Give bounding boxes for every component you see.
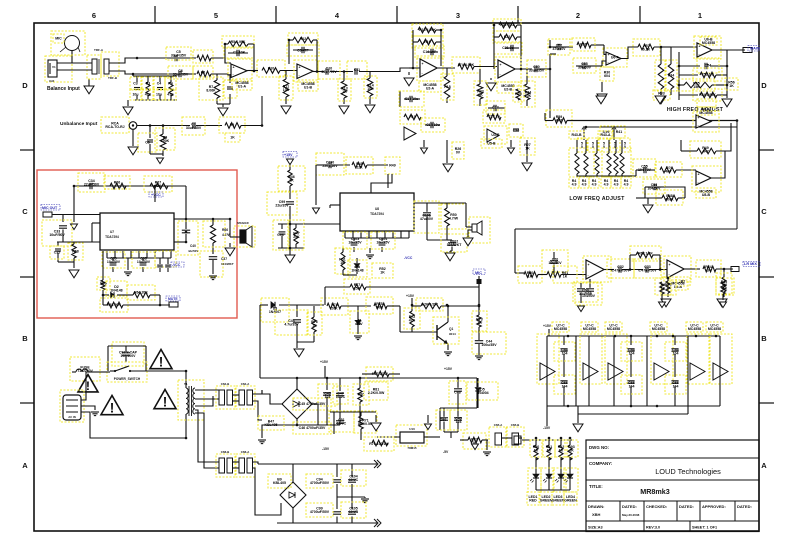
svg-text:DATED:: DATED: <box>679 504 694 509</box>
svg-text:LOW FREQ ADJUST: LOW FREQ ADJUST <box>569 196 625 202</box>
svg-text:R18: R18 <box>444 85 450 89</box>
svg-text:10K: 10K <box>283 88 290 92</box>
svg-text:R19: R19 <box>409 115 415 119</box>
svg-text:-5V: -5V <box>443 450 449 454</box>
svg-text:May.20.2008: May.20.2008 <box>622 513 640 517</box>
svg-text:1K: 1K <box>547 448 552 452</box>
svg-text:SPEAKER: SPEAKER <box>237 222 249 225</box>
svg-text:+: + <box>698 116 700 120</box>
svg-text:R34: R34 <box>668 74 674 78</box>
svg-text:MC4558: MC4558 <box>607 327 620 331</box>
svg-text:574-4.99K: 574-4.99K <box>458 63 475 67</box>
svg-text:C22: C22 <box>492 106 498 110</box>
svg-text:C52 1/6: C52 1/6 <box>701 73 713 77</box>
svg-text:Q1: Q1 <box>449 327 453 331</box>
svg-text:5: 5 <box>214 11 218 20</box>
svg-text:+: + <box>588 263 590 267</box>
svg-text:4700uF/50V: 4700uF/50V <box>310 510 330 514</box>
svg-text:R66: R66 <box>114 181 120 185</box>
svg-text:4700uF/50V: 4700uF/50V <box>310 481 330 485</box>
svg-text:104: 104 <box>562 384 568 388</box>
svg-text:POWER_SWITCH: POWER_SWITCH <box>114 377 141 381</box>
svg-text:470/50V: 470/50V <box>552 47 566 51</box>
svg-text:6.2K 1/2W: 6.2K 1/2W <box>421 303 438 307</box>
svg-text:2.2K/0.5W: 2.2K/0.5W <box>368 391 385 395</box>
svg-text:T1: T1 <box>184 382 188 386</box>
svg-text:10u/50V: 10u/50V <box>548 261 562 265</box>
svg-text:C23 1u: C23 1u <box>488 115 499 119</box>
svg-text:47K: 47K <box>145 93 152 97</box>
svg-text:+15V: +15V <box>444 367 453 371</box>
svg-text:4K7: 4K7 <box>702 149 708 153</box>
svg-text:GREEN: GREEN <box>564 498 577 502</box>
svg-text:C48: C48 <box>454 391 460 395</box>
svg-text:MIC OUT: MIC OUT <box>42 206 58 210</box>
svg-text:C40: C40 <box>190 244 196 248</box>
svg-text:D: D <box>22 81 28 90</box>
svg-text:DATED:: DATED: <box>622 504 637 509</box>
svg-text:4/u/50V: 4/u/50V <box>188 249 198 253</box>
svg-text:GREEN: GREEN <box>552 498 565 502</box>
svg-text:22u/35V: 22u/35V <box>275 203 289 207</box>
svg-text:DWG NO:: DWG NO: <box>589 445 610 450</box>
svg-text:+: + <box>422 62 424 66</box>
svg-text:R70 100/1W: R70 100/1W <box>369 442 389 446</box>
svg-text:1K: 1K <box>569 448 574 452</box>
svg-text:D: D <box>761 81 767 90</box>
svg-text:100K: 100K <box>161 139 170 143</box>
svg-text:604: 604 <box>604 74 610 78</box>
svg-text:C11: C11 <box>354 68 360 72</box>
svg-text:!: ! <box>159 354 164 369</box>
svg-text:1K: 1K <box>380 270 385 274</box>
svg-text:10u/50V: 10u/50V <box>107 260 121 264</box>
svg-text:DATED:: DATED: <box>737 504 752 509</box>
svg-text:MC4558: MC4558 <box>699 111 712 115</box>
svg-text:1N4148: 1N4148 <box>110 288 122 292</box>
svg-text:1K: 1K <box>563 274 568 278</box>
svg-text:+: + <box>608 53 610 57</box>
svg-text:1K: 1K <box>666 286 671 290</box>
svg-text:TRF-B: TRF-B <box>108 76 118 80</box>
svg-text:C4: C4 <box>157 82 162 86</box>
svg-text:10u/35V: 10u/35V <box>348 240 362 244</box>
svg-text:R43-B: R43-B <box>571 133 582 137</box>
svg-text:104/WKT: 104/WKT <box>447 243 463 247</box>
svg-text:104: 104 <box>673 384 679 388</box>
svg-text:47K: 47K <box>167 93 174 97</box>
svg-text:20K: 20K <box>331 306 338 310</box>
svg-text:APPROVED:: APPROVED: <box>702 504 726 509</box>
svg-text:15K: 15K <box>693 85 700 89</box>
svg-text:10u/50V: 10u/50V <box>137 260 151 264</box>
svg-text:1K: 1K <box>559 448 564 452</box>
svg-text:C50: C50 <box>440 418 446 422</box>
svg-text:6: 6 <box>92 11 96 20</box>
svg-text:104: 104 <box>629 384 635 388</box>
svg-text:R4: R4 <box>168 82 173 86</box>
svg-text:A: A <box>22 461 28 470</box>
svg-text:220u/16V: 220u/16V <box>322 164 338 168</box>
svg-text:XBH: XBH <box>592 512 601 517</box>
svg-text:KBL405: KBL405 <box>264 423 277 427</box>
svg-text:RCA-TO-RJ: RCA-TO-RJ <box>105 125 124 129</box>
svg-text:15K: 15K <box>354 286 361 290</box>
svg-text:U2-A: U2-A <box>426 86 435 90</box>
svg-text:R25: R25 <box>515 92 521 96</box>
svg-text:U5-B: U5-B <box>487 142 496 146</box>
svg-text:1N4004: 1N4004 <box>476 391 488 395</box>
svg-text:U8-B: U8-B <box>702 193 711 197</box>
svg-text:C9 47P: C9 47P <box>297 49 309 53</box>
svg-text:3: 3 <box>456 11 460 20</box>
svg-text:C35: C35 <box>54 251 60 255</box>
svg-text:9014: 9014 <box>449 332 456 336</box>
svg-text:-15V: -15V <box>322 447 330 451</box>
svg-text:0.47uF/50V: 0.47uF/50V <box>638 268 657 272</box>
svg-text:CHECKED:: CHECKED: <box>646 504 667 509</box>
svg-text:R58: R58 <box>580 43 586 47</box>
svg-text:+: + <box>299 66 301 70</box>
svg-text:B: B <box>761 334 767 343</box>
svg-text:100u/35V: 100u/35V <box>481 343 497 347</box>
svg-text:MC4558: MC4558 <box>702 41 715 45</box>
svg-text:104/50V: 104/50V <box>638 168 652 172</box>
svg-text:R3: R3 <box>146 82 151 86</box>
svg-text:U6-A: U6-A <box>611 56 620 60</box>
svg-text:R6: R6 <box>201 71 206 75</box>
svg-text:1K: 1K <box>534 448 539 452</box>
svg-text:R10: R10 <box>268 67 274 71</box>
svg-text:MC4558: MC4558 <box>583 327 596 331</box>
svg-text:C8: C8 <box>145 141 150 145</box>
svg-text:R66: R66 <box>222 228 228 232</box>
svg-text:Unbalance Input: Unbalance Input <box>60 121 98 127</box>
svg-text:104: 104 <box>673 351 679 355</box>
svg-text:R54 4.99K: R54 4.99K <box>699 93 716 97</box>
svg-text:C14 10P: C14 10P <box>423 50 437 54</box>
svg-text:104/C: 104/C <box>336 395 346 399</box>
svg-text:Balance Input: Balance Input <box>47 86 80 92</box>
svg-text:+15V: +15V <box>320 360 329 364</box>
svg-text:REV:3.0: REV:3.0 <box>646 526 660 530</box>
svg-text:U3-B: U3-B <box>491 133 500 137</box>
svg-text:C54: C54 <box>705 64 711 68</box>
svg-text:CN5-A: CN5-A <box>494 423 503 427</box>
svg-text:MUTE: MUTE <box>168 297 178 301</box>
svg-text:+: + <box>669 263 671 267</box>
svg-text:-VCC: -VCC <box>172 263 181 267</box>
svg-text:10u: 10u <box>156 93 162 97</box>
svg-text:+VCC: +VCC <box>151 193 161 197</box>
svg-text:CN6-B: CN6-B <box>221 450 230 454</box>
svg-text:22uF/50V: 22uF/50V <box>84 182 100 186</box>
svg-text:8.06K: 8.06K <box>206 88 216 92</box>
svg-text:U7: U7 <box>110 230 114 234</box>
svg-text:104/B: 104/B <box>349 510 359 514</box>
svg-text:104/50V: 104/50V <box>579 292 593 296</box>
svg-text:1K: 1K <box>706 268 711 272</box>
svg-text:AC IN: AC IN <box>68 415 76 419</box>
svg-text:10K: 10K <box>367 87 374 91</box>
svg-text:MC4558: MC4558 <box>652 327 665 331</box>
svg-text:33uF/70V: 33uF/70V <box>321 70 337 74</box>
svg-text:+15V: +15V <box>284 153 293 157</box>
svg-text:A: A <box>761 461 767 470</box>
svg-text:U2-B: U2-B <box>504 87 513 91</box>
svg-text:-15V: -15V <box>543 426 551 430</box>
svg-text:1K: 1K <box>478 93 483 97</box>
svg-text:10uF/50V: 10uF/50V <box>49 233 65 237</box>
svg-text:MC4558: MC4558 <box>688 327 701 331</box>
svg-text:KBL405: KBL405 <box>273 481 286 485</box>
svg-text:+: + <box>698 172 700 176</box>
svg-text:CN6-A: CN6-A <box>241 450 250 454</box>
svg-text:R49: R49 <box>389 164 395 168</box>
svg-text:C24: C24 <box>513 129 519 133</box>
svg-text:1K: 1K <box>342 90 347 94</box>
svg-text:0.47uF/50V: 0.47uF/50V <box>611 268 630 272</box>
svg-text:4.9: 4.9 <box>582 182 587 186</box>
svg-text:C21 1u: C21 1u <box>502 46 513 50</box>
svg-text:RED: RED <box>529 498 537 502</box>
svg-text:1N4148: 1N4148 <box>351 268 363 272</box>
svg-text:102/400V: 102/400V <box>121 354 137 358</box>
svg-text:47u/50V: 47u/50V <box>420 217 434 221</box>
svg-text:104: 104 <box>325 395 331 399</box>
svg-text:4.7u/35V: 4.7u/35V <box>284 322 299 326</box>
svg-text:COMPANY:: COMPANY: <box>589 461 613 466</box>
svg-text:C7 10P: C7 10P <box>233 51 245 55</box>
svg-text:SHEET: 1 OF1: SHEET: 1 OF1 <box>692 526 717 530</box>
svg-text:SIZE:A3: SIZE:A3 <box>588 526 603 530</box>
svg-text:33uF/35V: 33uF/35V <box>173 72 189 76</box>
svg-text:U10: U10 <box>409 427 415 431</box>
svg-text:4.7/W: 4.7/W <box>449 216 459 220</box>
svg-text:C46 4700uF/35V: C46 4700uF/35V <box>299 426 326 430</box>
svg-text:1K: 1K <box>230 136 235 140</box>
svg-text:R41: R41 <box>616 130 622 134</box>
svg-text:!: ! <box>163 394 168 409</box>
svg-text:MAIN: MAIN <box>750 47 760 51</box>
svg-text:R43-A: R43-A <box>600 133 611 137</box>
svg-text:+: + <box>233 65 235 69</box>
svg-text:R?: R? <box>681 280 686 284</box>
svg-text:47K: 47K <box>409 318 416 322</box>
svg-text:R9: R9 <box>230 123 235 127</box>
svg-text:R63 20K: R63 20K <box>107 303 121 307</box>
svg-text:33uF/35V: 33uF/35V <box>171 53 187 57</box>
svg-text:C: C <box>761 207 767 216</box>
svg-text:22K: 22K <box>356 165 363 169</box>
svg-text:104: 104 <box>456 420 462 424</box>
svg-text:R16: R16 <box>424 40 430 44</box>
svg-text:R64 20K: R64 20K <box>134 291 148 295</box>
svg-text:TRF-A: TRF-A <box>94 48 104 52</box>
svg-text:R5 4.99K: R5 4.99K <box>231 40 246 44</box>
svg-text:20K: 20K <box>293 235 300 239</box>
svg-text:CN4-B: CN4-B <box>221 382 230 386</box>
svg-text:+: + <box>500 63 502 67</box>
svg-text:-VCC: -VCC <box>404 256 413 260</box>
svg-text:10u: 10u <box>132 93 138 97</box>
svg-text:1: 1 <box>698 11 702 20</box>
svg-text:4K7: 4K7 <box>556 118 562 122</box>
svg-text:33uF/35V: 33uF/35V <box>529 68 545 72</box>
svg-text:33uF/35V: 33uF/35V <box>186 126 202 130</box>
svg-text:6.2K: 6.2K <box>643 47 651 51</box>
svg-text:1K: 1K <box>340 261 345 265</box>
svg-text:2: 2 <box>576 11 580 20</box>
svg-text:TDA7294: TDA7294 <box>370 212 384 216</box>
svg-text:1K: 1K <box>477 321 482 325</box>
svg-text:20K: 20K <box>376 305 383 309</box>
svg-text:104/C: 104/C <box>349 478 359 482</box>
svg-text:!: ! <box>110 400 115 415</box>
svg-text:78M15: 78M15 <box>407 446 417 450</box>
svg-text:C15 10u: C15 10u <box>405 97 418 101</box>
svg-text:R20 R21: R20 R21 <box>500 23 514 27</box>
svg-text:4.9: 4.9 <box>572 182 577 186</box>
svg-text:1K: 1K <box>312 323 317 327</box>
svg-text:+: + <box>699 44 701 48</box>
svg-text:!: ! <box>86 379 90 393</box>
svg-text:C98: C98 <box>277 233 283 237</box>
svg-text:1K: 1K <box>729 84 734 88</box>
svg-text:4K7: 4K7 <box>665 169 671 173</box>
svg-text:1K: 1K <box>723 286 728 290</box>
svg-text:MIC: MIC <box>55 37 62 41</box>
svg-text:1K: 1K <box>528 274 533 278</box>
svg-text:15V: 15V <box>356 322 363 326</box>
svg-text:B: B <box>22 334 28 343</box>
svg-text:U1-B: U1-B <box>304 85 313 89</box>
svg-text:390/50V: 390/50V <box>578 65 592 69</box>
svg-text:MC4558: MC4558 <box>554 327 567 331</box>
svg-text:LOUD Technologies: LOUD Technologies <box>655 467 721 476</box>
svg-text:R68: R68 <box>72 250 78 254</box>
svg-text:R62 1.2K: R62 1.2K <box>638 252 653 256</box>
svg-text:CN4-A: CN4-A <box>241 382 250 386</box>
svg-text:DRAWN:: DRAWN: <box>588 504 604 509</box>
svg-text:TDA7294: TDA7294 <box>105 235 119 239</box>
svg-text:XLR: XLR <box>49 79 54 83</box>
svg-text:C16 10u: C16 10u <box>426 123 439 127</box>
svg-text:+15V: +15V <box>406 294 415 298</box>
svg-text:LR MIX: LR MIX <box>744 262 757 266</box>
svg-text:4.9: 4.9 <box>592 182 597 186</box>
svg-text:10u/35V: 10u/35V <box>376 240 390 244</box>
svg-text:1K: 1K <box>525 146 530 150</box>
svg-text:R80: R80 <box>358 393 364 397</box>
svg-text:C3: C3 <box>133 82 138 86</box>
svg-text:104: 104 <box>629 351 635 355</box>
svg-text:100K: 100K <box>665 197 674 201</box>
svg-text:4.9: 4.9 <box>614 182 619 186</box>
svg-text:104/50V: 104/50V <box>647 186 661 190</box>
svg-text:R15 4.99K: R15 4.99K <box>419 28 436 32</box>
svg-text:4.9: 4.9 <box>604 182 609 186</box>
svg-text:4.9: 4.9 <box>624 182 629 186</box>
svg-text:C: C <box>22 207 28 216</box>
svg-text:U8: U8 <box>375 207 379 211</box>
svg-text:MC4558: MC4558 <box>708 327 721 331</box>
svg-text:104/C: 104/C <box>337 421 347 425</box>
svg-text:1K: 1K <box>289 178 294 182</box>
svg-text:CN5-B: CN5-B <box>511 423 520 427</box>
svg-text:TITLE:: TITLE: <box>589 484 603 489</box>
svg-text:104: 104 <box>562 351 568 355</box>
svg-text:20K: 20K <box>525 94 532 98</box>
svg-text:GREEN: GREEN <box>540 498 553 502</box>
svg-text:R22: R22 <box>504 35 510 39</box>
svg-text:U1-A: U1-A <box>238 84 247 88</box>
svg-text:C37: C37 <box>221 257 227 261</box>
svg-text:+15V: +15V <box>543 324 552 328</box>
svg-text:R12: R12 <box>300 37 306 41</box>
svg-text:V1: V1 <box>52 65 56 69</box>
svg-text:1K: 1K <box>661 286 666 290</box>
svg-text:0V: 0V <box>456 150 461 154</box>
svg-text:MR8mk3: MR8mk3 <box>640 487 670 496</box>
svg-text:104/WKT: 104/WKT <box>221 262 234 266</box>
